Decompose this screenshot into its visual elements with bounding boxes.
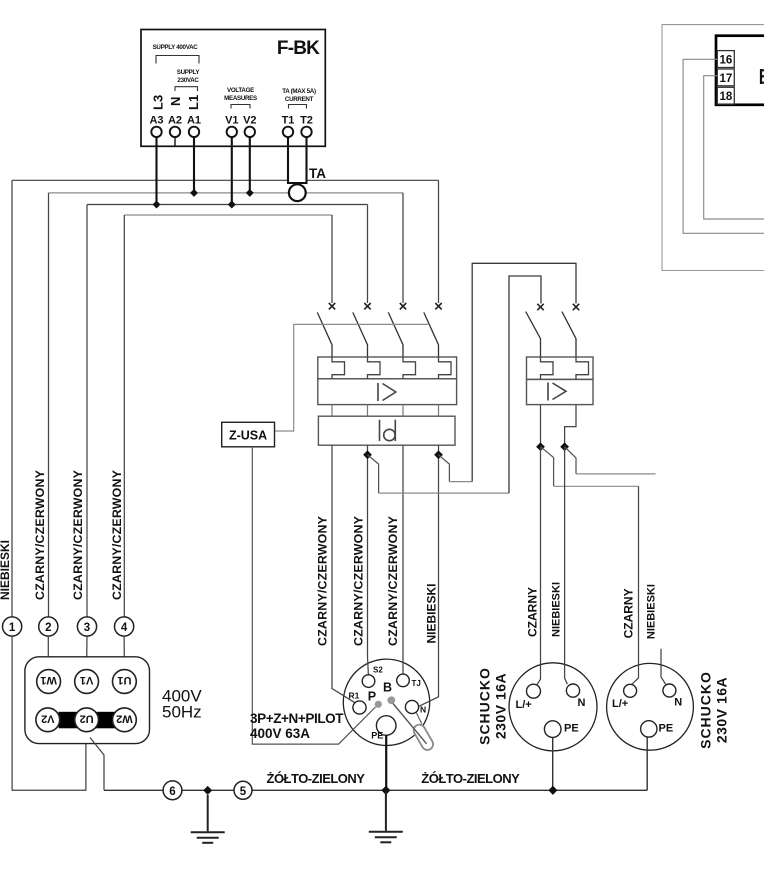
wire drop to node 2 — [48, 193, 50, 617]
breaker QF1 thermal box — [318, 357, 457, 379]
wire V2 stub — [249, 137, 251, 193]
svg-text:A2: A2 — [168, 115, 182, 127]
label SUPPLY 400VAC — [153, 44, 199, 51]
wire tap2 run — [379, 492, 509, 494]
plug pin PE — [376, 716, 396, 736]
tap blade pole 4 — [439, 455, 450, 482]
wire drop socket X2 L — [632, 486, 639, 684]
junction socket X1 PE — [548, 786, 557, 795]
wire drop to node 4 — [123, 215, 125, 617]
wire PE bus left — [104, 789, 647, 791]
plug pin N — [405, 700, 418, 713]
terminal V2 — [245, 127, 255, 137]
wire to socket X2 N — [576, 473, 656, 475]
relay device box — [716, 36, 764, 105]
motor terminal U2 — [75, 708, 99, 732]
junction PE-earth — [203, 786, 212, 795]
svg-text:NIEBIESKI: NIEBIESKI — [646, 584, 658, 639]
svg-text:T1: T1 — [282, 115, 295, 127]
contact cross pole 2 — [364, 303, 370, 309]
bracket supply 400VAC — [156, 56, 199, 64]
symbol Id — [380, 420, 396, 441]
svg-text:CZARNY: CZARNY — [526, 587, 540, 637]
terminal V1 — [227, 127, 237, 137]
thermal element QF2 pole L — [541, 357, 554, 379]
wire QF2 N to socket X1 N — [565, 447, 568, 685]
wire pin B tail — [393, 704, 427, 744]
svg-text:5: 5 — [240, 786, 247, 798]
CT TA core circle — [289, 184, 306, 201]
terminal 18 — [717, 87, 734, 104]
blade pole 3 — [388, 312, 403, 357]
svg-text:3P+Z+N+PILOT: 3P+Z+N+PILOT — [250, 711, 344, 726]
wire terminal 16 — [683, 59, 764, 233]
svg-text:SCHUCKO: SCHUCKO — [698, 671, 714, 749]
socket X2 pin PE — [641, 721, 657, 737]
bracket supply 230VAC — [175, 87, 198, 91]
motor terminal V2 — [36, 708, 60, 732]
svg-text:230VAC: 230VAC — [177, 77, 199, 84]
plug pin R1 — [353, 701, 366, 714]
svg-text:PE: PE — [564, 723, 579, 735]
wire terminal 17 — [704, 76, 764, 219]
wire A1 stub — [193, 137, 195, 193]
wire T2 lead — [305, 137, 307, 184]
svg-text:R1: R1 — [349, 691, 360, 701]
thermal element pole 1 — [332, 357, 345, 379]
contact cross pole 3 — [400, 303, 406, 309]
pin labels A3 A2 A1 V1 V2 T1 T2 — [149, 115, 312, 127]
svg-text:N: N — [674, 697, 682, 709]
thermal element pole 3 — [403, 357, 416, 379]
label VOLTAGE MEASURES — [224, 87, 257, 102]
wire pin N tail — [416, 713, 422, 724]
power analyzer F-BK outline — [141, 30, 325, 147]
wire feed pole 3 — [402, 193, 404, 303]
wire pole 3 to plug TJ — [402, 445, 404, 674]
contact cross pole 4 — [435, 303, 441, 309]
junction V1-bus — [228, 201, 236, 209]
socket X1 pin PE — [544, 721, 561, 738]
link bar U2-W2 — [96, 712, 115, 729]
junction tap pole 4 — [434, 450, 443, 459]
bracket TA current — [289, 105, 307, 109]
terminal A2 — [170, 127, 180, 137]
label SUPPLY 230VAC — [177, 69, 201, 84]
svg-text:W1: W1 — [40, 674, 57, 686]
wire bus L (y180) — [12, 179, 439, 181]
CT TA bottom bar — [287, 182, 308, 184]
terminal A3 — [151, 127, 161, 137]
svg-text:N: N — [168, 97, 183, 106]
svg-text:CURRENT: CURRENT — [285, 96, 314, 103]
blade pole 2 — [353, 312, 368, 357]
socket X2 body — [607, 663, 694, 750]
breaker QF2 thermal box — [527, 357, 594, 379]
socket X2 pin L — [624, 684, 637, 697]
tap blade pole 2 — [368, 455, 379, 493]
terminal 16 — [717, 51, 734, 68]
svg-text:L/+: L/+ — [612, 698, 628, 710]
tap blade QF2 L — [541, 447, 554, 487]
svg-text:SUPPLY 400VAC: SUPPLY 400VAC — [153, 44, 199, 51]
motor terminal W2 — [113, 708, 137, 732]
socket X1 pin L — [527, 684, 541, 698]
symbol I> QF2 — [548, 383, 566, 401]
junction plug PE — [381, 786, 390, 795]
wire plug PE earth stem — [385, 735, 387, 790]
ground symbol plug PE — [369, 790, 403, 842]
thermal element pole 2 — [368, 357, 381, 379]
svg-text:Z-USA: Z-USA — [229, 428, 267, 442]
junction V2-bus — [246, 189, 254, 197]
svg-text:N: N — [578, 697, 586, 709]
wire node 4 to motor U1 — [123, 636, 125, 670]
svg-text:SUPPLY: SUPPLY — [177, 69, 201, 76]
junction tap QF2 N — [560, 442, 569, 451]
node 1 — [3, 617, 22, 636]
svg-text:2: 2 — [45, 622, 51, 634]
terminal 17 — [717, 69, 734, 86]
wire Z-USA pilot to P — [252, 447, 375, 744]
svg-text:U1: U1 — [117, 674, 131, 686]
svg-text:TA: TA — [309, 166, 326, 181]
wire V1 stub — [231, 137, 233, 205]
wire node 2 to motor W1 — [47, 636, 49, 670]
wire neutral drop to node 1 — [11, 180, 13, 617]
wire feed pole 4 — [438, 180, 440, 303]
wire pole 1 to plug R1 — [332, 445, 355, 703]
wire pole stubs to RCD — [332, 405, 439, 417]
svg-text:TA (MAX 5A): TA (MAX 5A) — [282, 88, 316, 95]
wire QF2 pole N jog down — [565, 405, 576, 447]
svg-text:CZARNY/CZERWONY: CZARNY/CZERWONY — [351, 515, 365, 646]
link bar V2-U2 — [59, 712, 77, 729]
plug pin P pilot — [375, 701, 382, 708]
junction tap pole 2 — [363, 450, 372, 459]
wire QF2 L to socket X1 L — [537, 447, 540, 685]
wire A2 stub — [174, 137, 176, 146]
svg-text:400V 63A: 400V 63A — [250, 726, 310, 741]
tap blade QF2 N — [565, 447, 576, 474]
svg-text:SCHUCKO: SCHUCKO — [477, 667, 493, 745]
ground symbol left — [191, 795, 225, 843]
junction A1-bus — [190, 189, 198, 197]
contact cross QF2 pole N — [573, 304, 579, 310]
wire riser to QF2 pole N — [472, 263, 576, 481]
wire node 3 to motor V1 — [86, 636, 88, 670]
wire to socket X2 L — [554, 485, 639, 487]
svg-text:230V 16A: 230V 16A — [714, 677, 730, 743]
wire bus (y193) — [49, 192, 404, 194]
svg-text:NIEBIESKI: NIEBIESKI — [425, 583, 439, 643]
svg-text:6: 6 — [169, 786, 175, 798]
socket X1 pin N — [566, 684, 579, 697]
svg-text:NIEBIESKI: NIEBIESKI — [0, 540, 12, 600]
svg-text:A3: A3 — [149, 115, 163, 127]
breaker QF2 magnetic box — [527, 379, 594, 404]
RCD Id box — [318, 416, 455, 445]
svg-text:V1: V1 — [80, 674, 93, 686]
node 4 — [115, 617, 134, 636]
blade pole 4 — [424, 312, 439, 357]
svg-text:TJ: TJ — [412, 679, 421, 688]
plug pin TJ — [397, 674, 410, 687]
svg-text:50Hz: 50Hz — [162, 703, 202, 722]
bracket voltage measures — [231, 105, 250, 109]
wire node 1 neutral to motor U2 — [12, 636, 86, 790]
contact cross pole 1 — [329, 303, 335, 309]
svg-text:PE: PE — [371, 731, 383, 741]
svg-text:A1: A1 — [187, 115, 201, 127]
svg-text:VOLTAGE: VOLTAGE — [227, 87, 254, 94]
label 400V 50Hz — [162, 687, 202, 722]
terminal A1 — [189, 127, 199, 137]
svg-text:L/+: L/+ — [516, 699, 532, 711]
svg-text:CZARNY/CZERWONY: CZARNY/CZERWONY — [316, 515, 330, 646]
svg-text:ŻÓŁTO-ZIELONY: ŻÓŁTO-ZIELONY — [267, 771, 366, 786]
wire bus (y204) — [87, 204, 368, 206]
svg-text:PE: PE — [659, 723, 674, 735]
blade QF2 pole N — [562, 312, 576, 357]
svg-text:V2: V2 — [41, 712, 54, 724]
plug X1 body — [343, 659, 429, 745]
thermal element QF2 pole N — [576, 357, 589, 379]
plug pin S2 — [362, 675, 375, 688]
svg-text:MEASURES: MEASURES — [224, 95, 257, 102]
wire riser to QF2 pole L — [509, 276, 541, 493]
node 2 — [39, 617, 58, 636]
wire stub socket X2 N — [661, 649, 666, 684]
thermal element pole 4 — [439, 357, 452, 379]
wire drop to node 3 — [86, 205, 88, 618]
socket X1 body — [509, 663, 597, 751]
motor terminal U1 — [113, 670, 137, 694]
svg-text:L3: L3 — [151, 95, 166, 110]
trip linkage bar — [275, 324, 429, 431]
wire motor earth tap — [90, 738, 104, 791]
wire T1 lead — [287, 137, 289, 184]
junction tap QF2 L — [536, 442, 545, 451]
wire tap4 run — [449, 481, 472, 483]
terminal T1 — [283, 127, 293, 137]
svg-text:18: 18 — [720, 91, 733, 103]
svg-text:F-BK: F-BK — [277, 38, 320, 59]
svg-text:CZARNY/CZERWONY: CZARNY/CZERWONY — [110, 469, 124, 600]
breaker QF1 magnetic box — [318, 379, 457, 405]
svg-text:ŻÓŁTO-ZIELONY: ŻÓŁTO-ZIELONY — [421, 771, 520, 786]
svg-text:CZARNY: CZARNY — [622, 588, 636, 638]
motor terminal board — [25, 657, 150, 744]
node 3 — [77, 617, 96, 636]
wire QF2 pole L down — [540, 405, 542, 447]
wire feed pole 1 — [331, 215, 333, 303]
svg-text:B: B — [383, 681, 392, 695]
svg-text:P: P — [368, 690, 376, 704]
blade QF2 pole L — [526, 312, 541, 357]
svg-text:S2: S2 — [373, 666, 383, 675]
svg-text:T2: T2 — [300, 115, 313, 127]
socket X2 pin N — [663, 684, 676, 697]
svg-text:CZARNY/CZERWONY: CZARNY/CZERWONY — [71, 469, 85, 600]
wire bus (y215) — [124, 214, 332, 216]
pilot bridge capsule — [412, 723, 436, 752]
node 6 — [163, 781, 182, 800]
svg-text:V1: V1 — [225, 115, 238, 127]
svg-text:17: 17 — [720, 73, 733, 85]
svg-text:CZARNY/CZERWONY: CZARNY/CZERWONY — [33, 469, 47, 600]
svg-text:U2: U2 — [80, 712, 94, 724]
wire socket X2 PE riser — [646, 737, 648, 790]
svg-text:230V 16A: 230V 16A — [493, 673, 509, 739]
contact cross QF2 pole L — [537, 304, 543, 310]
label TA (MAX 5A) CURRENT — [282, 88, 316, 103]
partial device letter — [761, 69, 764, 84]
svg-text:N: N — [420, 705, 426, 715]
svg-text:L1: L1 — [186, 95, 201, 110]
svg-text:CZARNY/CZERWONY: CZARNY/CZERWONY — [386, 515, 400, 646]
wire pole 2 to plug S2 — [367, 445, 370, 675]
shunt trip Z-USA — [222, 422, 275, 447]
terminal T2 — [301, 127, 311, 137]
motor terminal V1 — [75, 670, 99, 694]
blade pole 1 — [317, 312, 332, 357]
node 5 — [234, 781, 252, 799]
wire A3 stub — [155, 137, 157, 205]
symbol I> QF1 — [378, 383, 396, 401]
svg-text:4: 4 — [121, 622, 128, 634]
svg-text:1: 1 — [9, 622, 16, 634]
svg-text:NIEBIESKI: NIEBIESKI — [551, 582, 563, 637]
svg-text:W2: W2 — [116, 712, 133, 724]
enclosure boundary top right — [662, 25, 764, 271]
junction A3-bus — [153, 201, 161, 209]
wire pole 4 to plug N — [418, 445, 438, 706]
wire socket X1 PE stem — [552, 737, 554, 790]
svg-text:16: 16 — [720, 55, 733, 67]
svg-text:3: 3 — [84, 622, 90, 634]
svg-text:V2: V2 — [243, 115, 256, 127]
motor terminal W1 — [37, 670, 61, 694]
plug pin B pilot — [387, 696, 395, 704]
wire feed pole 2 — [367, 205, 369, 304]
